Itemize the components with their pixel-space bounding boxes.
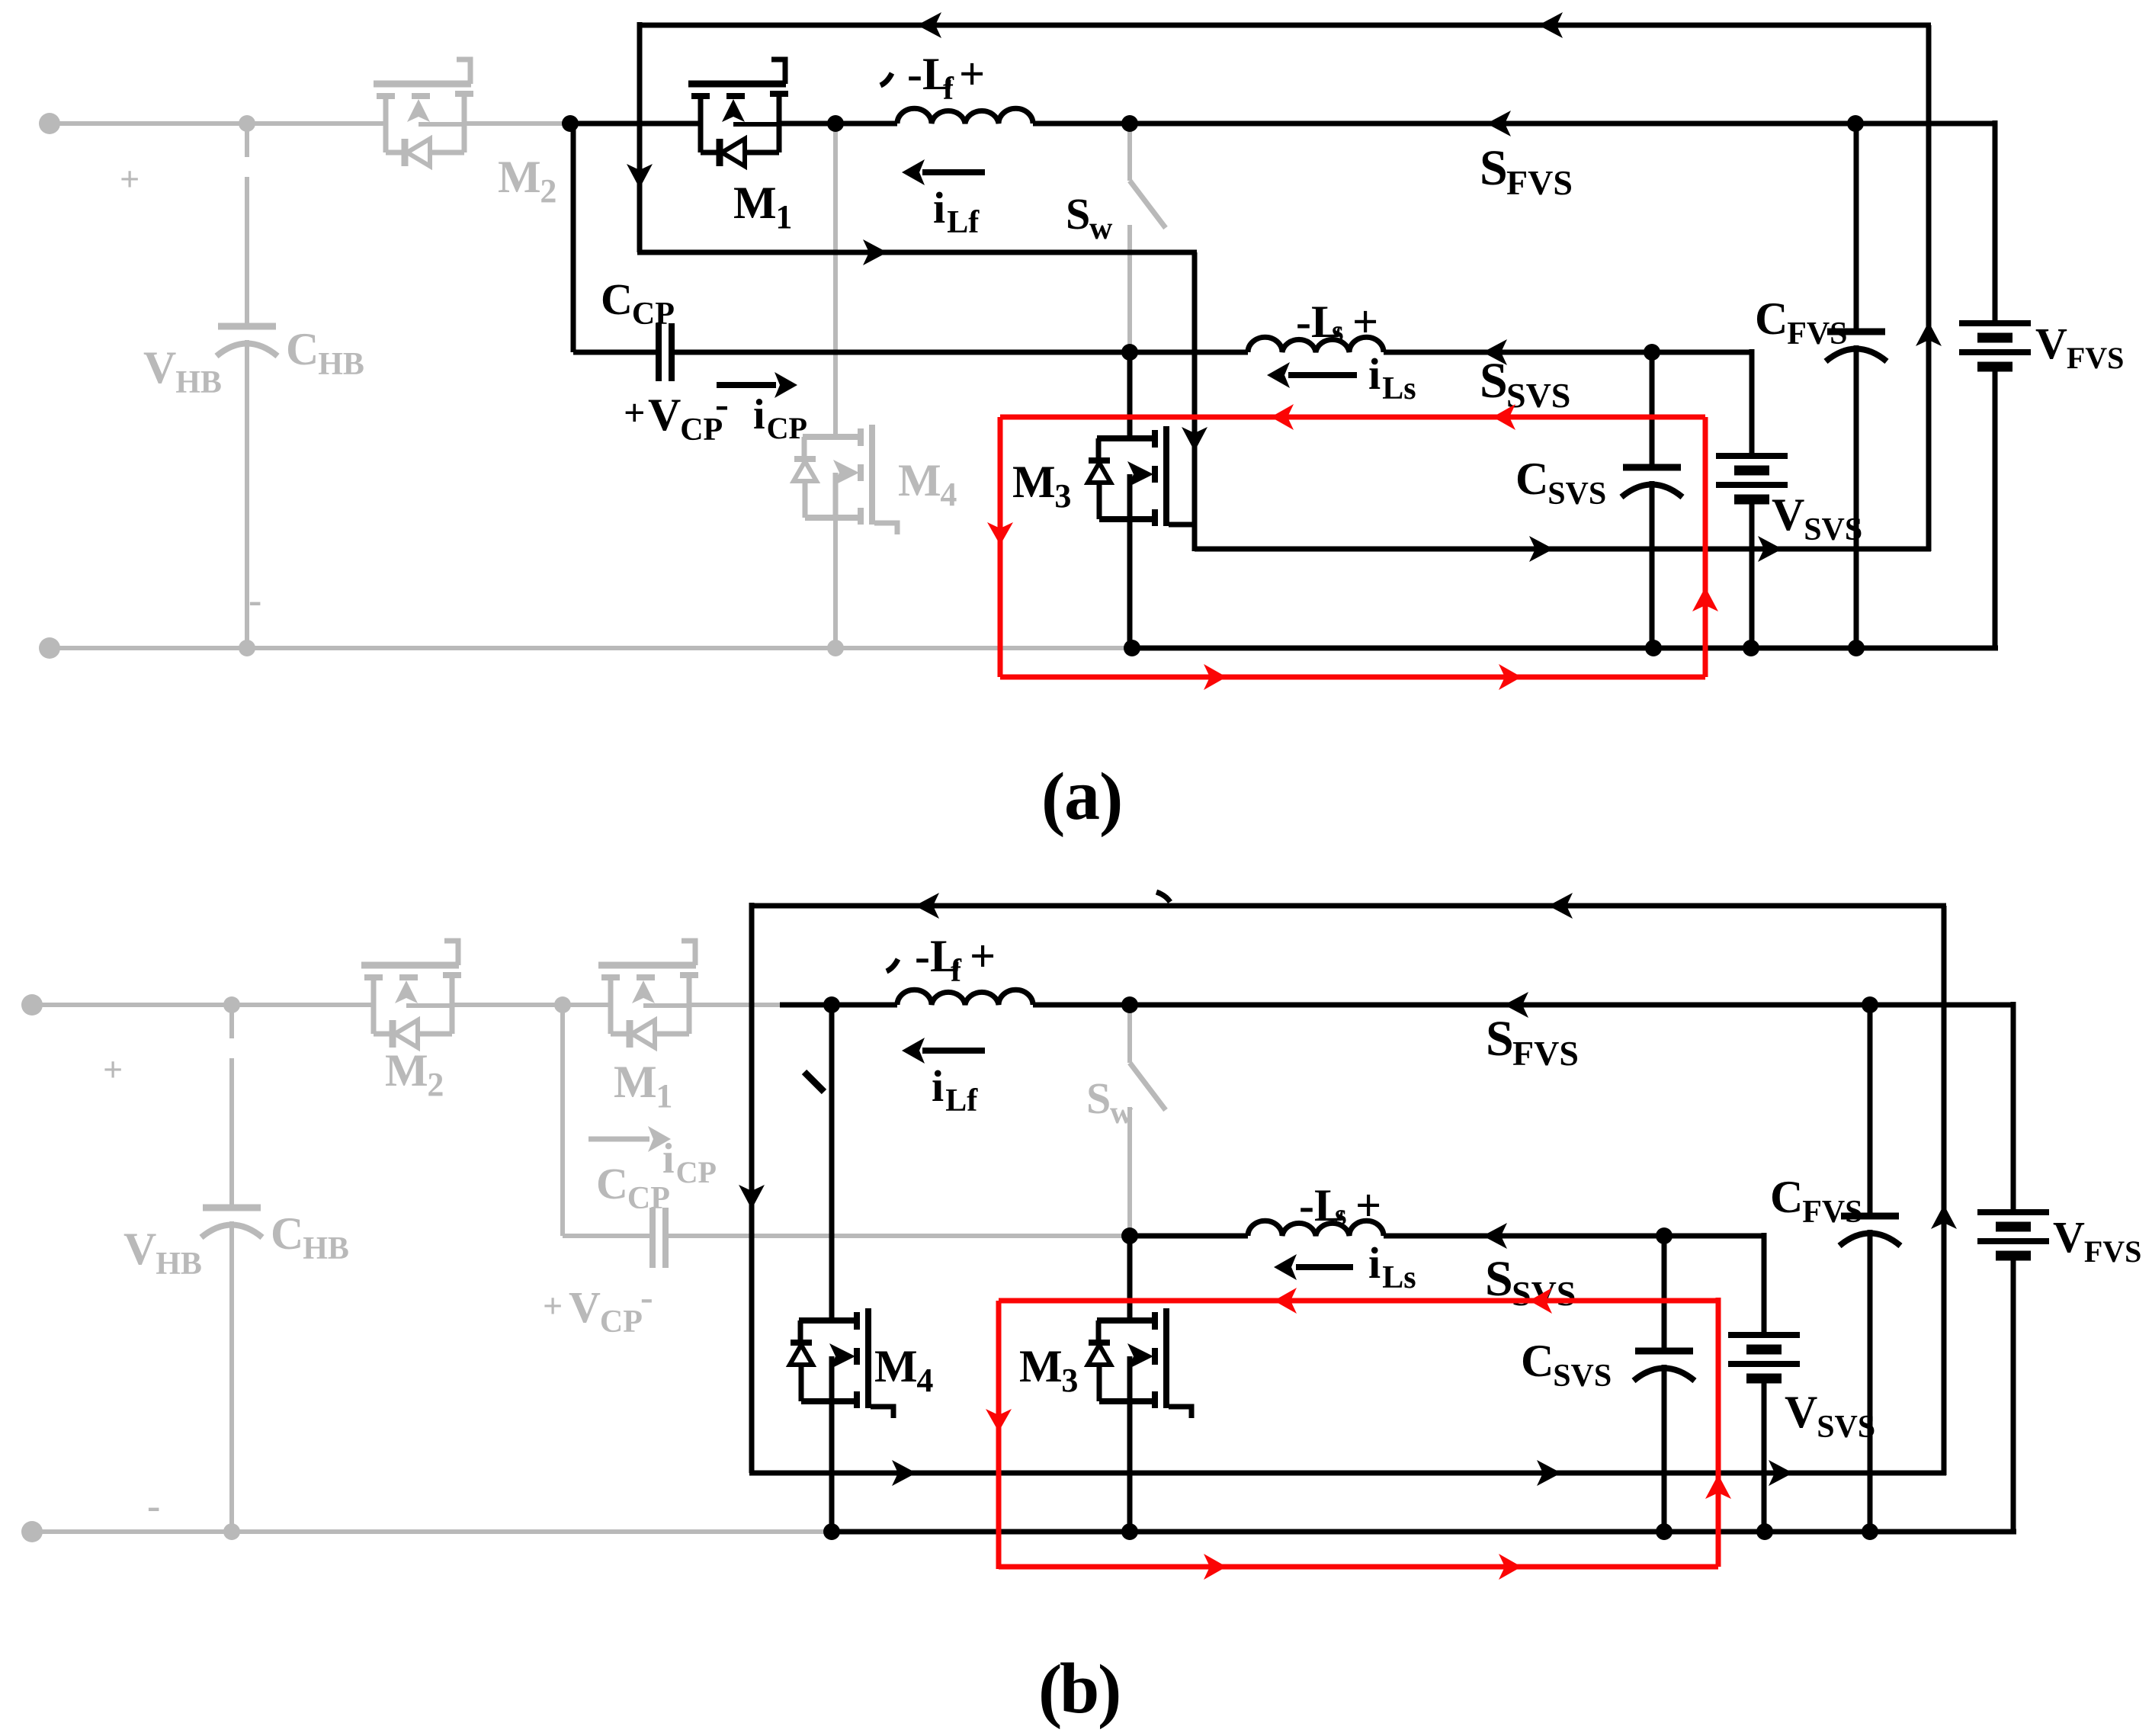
svg-text:FVS: FVS bbox=[2084, 1234, 2142, 1269]
svg-text:i: i bbox=[933, 183, 945, 233]
svg-text:M: M bbox=[614, 1057, 657, 1107]
svg-text:SVS: SVS bbox=[1804, 512, 1862, 547]
svg-text:Lf: Lf bbox=[947, 205, 980, 240]
svg-text:M: M bbox=[1019, 1341, 1063, 1391]
svg-text:i: i bbox=[662, 1135, 675, 1182]
svg-text:FVS: FVS bbox=[1802, 1195, 1862, 1230]
svg-text:V: V bbox=[569, 1282, 601, 1332]
svg-text:HB: HB bbox=[175, 365, 222, 400]
svg-text:3: 3 bbox=[1054, 477, 1071, 515]
svg-text:CP: CP bbox=[767, 411, 807, 445]
svg-text:w: w bbox=[1110, 1096, 1134, 1131]
svg-text:SVS: SVS bbox=[1506, 376, 1570, 415]
svg-text:M: M bbox=[1012, 457, 1056, 507]
svg-text:s: s bbox=[1335, 1197, 1347, 1231]
svg-text:4: 4 bbox=[940, 476, 957, 513]
svg-text:HB: HB bbox=[156, 1247, 202, 1282]
svg-text:V: V bbox=[2053, 1212, 2085, 1262]
svg-text:M: M bbox=[874, 1341, 918, 1391]
svg-text:s: s bbox=[1332, 313, 1344, 348]
svg-text:M: M bbox=[898, 455, 941, 505]
svg-text:SVS: SVS bbox=[1817, 1410, 1875, 1445]
svg-text:C: C bbox=[1521, 1336, 1554, 1386]
svg-text:SVS: SVS bbox=[1553, 1359, 1612, 1394]
svg-text:+: + bbox=[624, 391, 646, 434]
svg-text:M: M bbox=[385, 1045, 428, 1096]
svg-text:CP: CP bbox=[627, 1181, 670, 1216]
svg-text:4: 4 bbox=[916, 1362, 933, 1399]
svg-text:+: + bbox=[103, 1050, 123, 1089]
svg-text:Ls: Ls bbox=[1382, 371, 1416, 406]
svg-text:S: S bbox=[1486, 1011, 1514, 1067]
svg-text:S: S bbox=[1480, 140, 1508, 196]
svg-text:): ) bbox=[1098, 1651, 1121, 1730]
svg-text:Lf: Lf bbox=[945, 1083, 978, 1118]
svg-text:S: S bbox=[1086, 1073, 1111, 1123]
svg-text:SVS: SVS bbox=[1547, 477, 1606, 512]
svg-text:+: + bbox=[970, 931, 996, 981]
svg-text:CP: CP bbox=[632, 297, 675, 332]
svg-text:CP: CP bbox=[676, 1155, 717, 1189]
svg-text:M: M bbox=[733, 178, 777, 228]
svg-text:V: V bbox=[1772, 489, 1804, 540]
svg-text:FVS: FVS bbox=[1506, 163, 1573, 202]
svg-text:C: C bbox=[1770, 1172, 1803, 1222]
svg-text:C: C bbox=[601, 274, 633, 324]
svg-text:S: S bbox=[1066, 189, 1090, 239]
svg-text:C: C bbox=[1515, 454, 1548, 504]
svg-text:M: M bbox=[498, 152, 541, 202]
svg-text:Ls: Ls bbox=[1382, 1260, 1416, 1295]
svg-text:-: - bbox=[640, 1276, 653, 1318]
svg-text:i: i bbox=[932, 1061, 944, 1111]
svg-text:HB: HB bbox=[318, 347, 364, 382]
svg-text:C: C bbox=[1755, 294, 1788, 344]
svg-text:b: b bbox=[1060, 1649, 1099, 1728]
svg-text:+: + bbox=[1352, 297, 1378, 347]
svg-text:i: i bbox=[753, 391, 765, 438]
svg-text:FVS: FVS bbox=[2067, 341, 2125, 375]
svg-text:V: V bbox=[123, 1224, 156, 1274]
svg-text:i: i bbox=[1368, 1238, 1381, 1288]
svg-text:V: V bbox=[648, 390, 681, 440]
svg-text:CP: CP bbox=[600, 1304, 643, 1340]
svg-text:-: - bbox=[249, 579, 261, 622]
svg-text:2: 2 bbox=[427, 1066, 444, 1103]
svg-text:C: C bbox=[596, 1159, 628, 1208]
svg-text:+: + bbox=[543, 1286, 563, 1325]
svg-text:C: C bbox=[286, 324, 319, 374]
svg-text:i: i bbox=[1368, 349, 1381, 399]
svg-text:3: 3 bbox=[1061, 1362, 1078, 1399]
svg-text:2: 2 bbox=[540, 172, 556, 210]
svg-text:V: V bbox=[2035, 319, 2067, 368]
svg-text:V: V bbox=[1785, 1387, 1817, 1437]
svg-text:1: 1 bbox=[656, 1077, 672, 1115]
svg-text:+: + bbox=[120, 159, 140, 198]
svg-text:f: f bbox=[951, 954, 962, 989]
svg-text:w: w bbox=[1089, 211, 1113, 246]
svg-text:(: ( bbox=[1038, 1651, 1062, 1730]
svg-text:V: V bbox=[143, 342, 176, 393]
svg-text:f: f bbox=[943, 72, 954, 107]
svg-text:S: S bbox=[1480, 353, 1508, 409]
svg-text:a: a bbox=[1064, 756, 1100, 835]
svg-text:): ) bbox=[1099, 759, 1123, 838]
svg-text:FVS: FVS bbox=[1787, 316, 1847, 351]
svg-text:FVS: FVS bbox=[1512, 1034, 1579, 1073]
svg-text:+: + bbox=[959, 49, 985, 99]
svg-text:(: ( bbox=[1041, 759, 1065, 838]
svg-text:+: + bbox=[1355, 1180, 1381, 1231]
svg-text:HB: HB bbox=[303, 1231, 349, 1266]
svg-text:1: 1 bbox=[775, 198, 792, 236]
svg-text:-: - bbox=[147, 1484, 160, 1528]
svg-text:C: C bbox=[271, 1208, 303, 1259]
